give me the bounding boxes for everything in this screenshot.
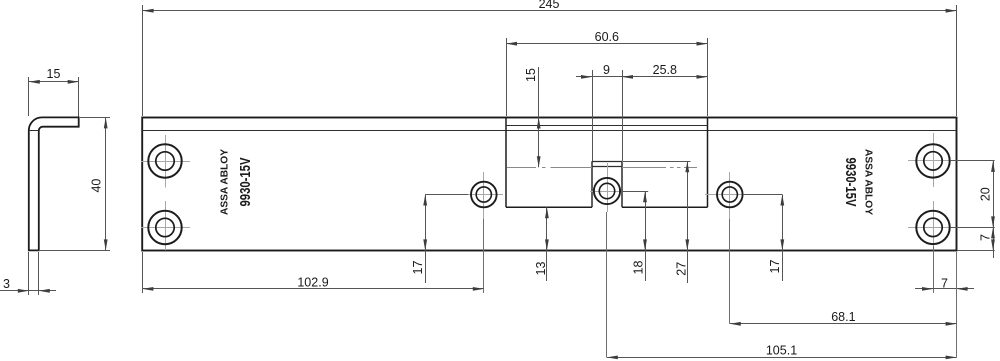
svg-text:25.8: 25.8 (653, 63, 677, 77)
center hole crosshair (590, 163, 624, 212)
ASSA ABLOY logo left (219, 149, 231, 215)
latch notch left edge (591, 161, 593, 207)
screw hole bottom-right crosshair (908, 201, 950, 250)
dimension 27 (notch top height) (623, 161, 691, 283)
dimension 17 left (small hole height) (411, 195, 468, 284)
svg-text:9: 9 (603, 63, 610, 77)
screw hole top-right crosshair (908, 133, 995, 187)
dimension 18 (center hole height) (621, 191, 648, 281)
model 9930-15V right (842, 158, 859, 207)
dimension 245 (overall length) (143, 0, 957, 116)
svg-text:102.9: 102.9 (297, 275, 328, 289)
dimension 20 (between right holes) (950, 161, 995, 259)
screw hole top-right (916, 144, 949, 177)
latch notch top line (592, 161, 622, 163)
svg-text:20: 20 (979, 187, 993, 201)
svg-text:9930-15V: 9930-15V (842, 158, 859, 207)
dimension 7 bottom-right (hole to edge) (915, 246, 974, 293)
dimension 17 right (small hole height) (744, 195, 784, 282)
model 9930-15V left (237, 158, 254, 207)
svg-text:15: 15 (524, 68, 538, 82)
dimension 3 (side view thickness) (0, 252, 56, 295)
side view L-profile outline (29, 117, 79, 250)
dimension 105.1 (right edge to center hole) (607, 212, 957, 359)
screw hole bottom-left crosshair (141, 201, 190, 250)
plate outline (142, 118, 956, 251)
screw hole bottom-left (148, 211, 181, 244)
svg-text:7: 7 (941, 276, 948, 290)
svg-text:9930-15V: 9930-15V (237, 158, 254, 207)
svg-text:27: 27 (675, 262, 689, 276)
strike box right edge (707, 118, 709, 208)
screw hole bottom-right (916, 211, 949, 244)
svg-text:68.1: 68.1 (831, 310, 855, 324)
small hole left crosshair (462, 172, 503, 219)
dimension 7 right side (hole to bottom) (957, 227, 995, 250)
dimension 15 (top edge to centerline) (524, 67, 541, 167)
svg-text:7: 7 (979, 234, 993, 241)
svg-text:18: 18 (631, 261, 645, 275)
small hole left (471, 182, 497, 208)
svg-text:ASSA ABLOY: ASSA ABLOY (863, 149, 875, 215)
latch notch second line (592, 166, 622, 168)
dimension 15 (side view leg length) (29, 67, 79, 117)
dimension 9 (notch width) (576, 63, 623, 161)
svg-text:ASSA ABLOY: ASSA ABLOY (219, 149, 231, 215)
screw hole top-left crosshair (141, 135, 190, 188)
svg-text:245: 245 (539, 0, 560, 11)
latch notch right edge (621, 161, 623, 207)
svg-text:60.6: 60.6 (595, 30, 619, 44)
dimension 68.1 (right edge to small hole) (730, 219, 957, 357)
side view bend tangent line (29, 130, 39, 132)
svg-text:40: 40 (90, 179, 104, 193)
dimension 25.8 (notch to box edge) (622, 63, 708, 79)
ASSA ABLOY logo right (863, 149, 875, 215)
strike box left edge (505, 118, 507, 208)
small hole right (717, 182, 743, 208)
svg-text:17: 17 (768, 260, 782, 274)
svg-text:3: 3 (3, 277, 10, 291)
svg-text:105.1: 105.1 (766, 344, 797, 358)
strike box bottom edge (506, 206, 708, 208)
dimension 102.9 (left edge to small hole) (142, 219, 483, 293)
strike box top inner line (506, 125, 708, 127)
dimension 60.6 (box width) (506, 30, 708, 116)
dimension 13 (box bottom height) (534, 207, 549, 281)
screw hole top-left (148, 144, 181, 177)
box centerline (dash-dot) (507, 167, 698, 169)
svg-text:17: 17 (411, 261, 425, 275)
svg-text:15: 15 (47, 67, 61, 81)
center hole (594, 178, 620, 204)
small hole right crosshair (705, 172, 745, 219)
svg-text:13: 13 (534, 262, 548, 276)
fold line (142, 130, 956, 132)
dimension 40 (side view height) (40, 117, 110, 250)
